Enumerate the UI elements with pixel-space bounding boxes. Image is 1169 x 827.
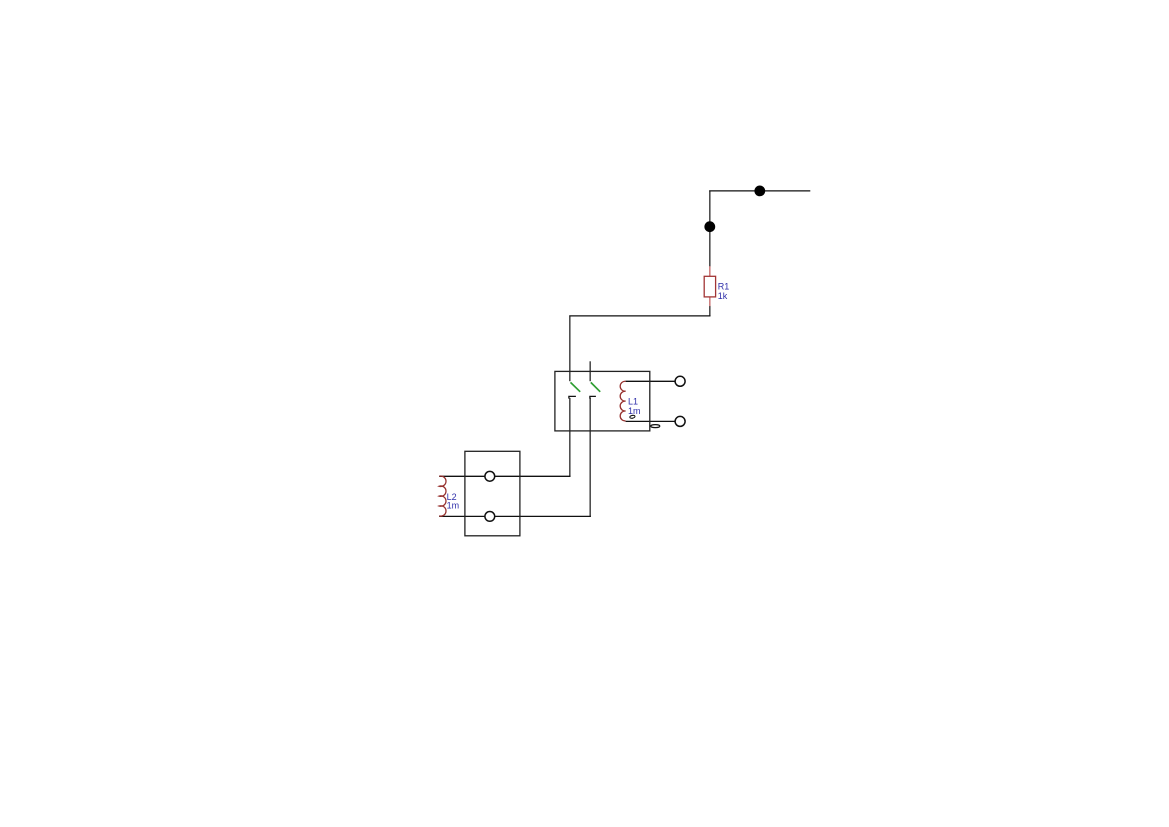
svg-text:1m: 1m — [447, 500, 460, 510]
svg-text:1m: 1m — [628, 406, 641, 416]
svg-text:1k: 1k — [718, 291, 728, 301]
